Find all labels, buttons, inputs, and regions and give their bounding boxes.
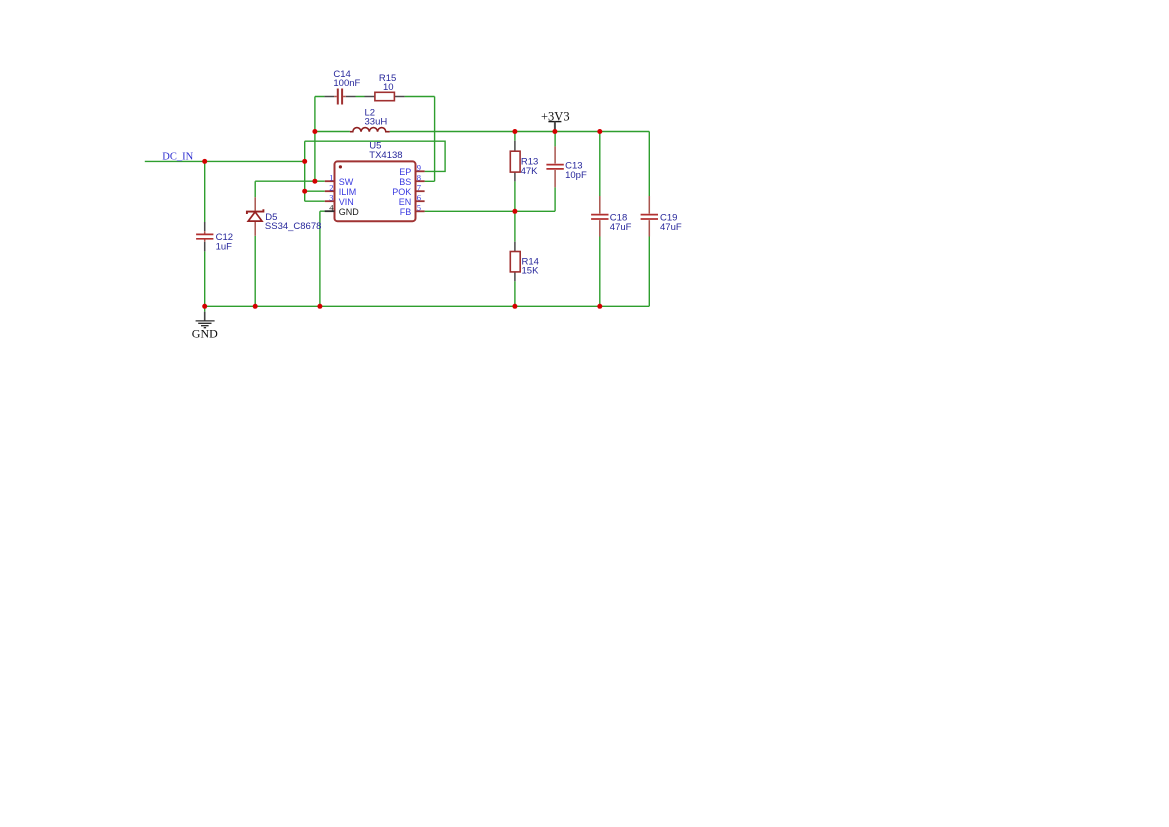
svg-text:15K: 15K	[522, 266, 540, 277]
junction rail / D5	[253, 304, 258, 309]
wire BS vertical	[425, 97, 435, 182]
wire C18 branch	[599, 132, 601, 307]
svg-text:ILIM: ILIM	[339, 187, 357, 197]
resistor R13	[510, 141, 538, 182]
wire ground rail	[205, 305, 650, 307]
capacitor C18	[591, 196, 632, 237]
junction pin2 tap	[302, 189, 307, 194]
ground	[192, 306, 218, 340]
junction SW / L2	[312, 129, 317, 134]
wire pin4 to ground rail	[320, 211, 325, 306]
junction DC_IN / EP riser	[302, 159, 307, 164]
wire SW vertical	[315, 97, 325, 182]
svg-text:10: 10	[383, 82, 394, 93]
svg-text:47K: 47K	[521, 166, 539, 177]
capacitor C13	[546, 146, 587, 187]
svg-text:33uH: 33uH	[365, 117, 388, 128]
pin 1 SW	[325, 172, 354, 187]
pin 2 ILIM	[325, 182, 356, 197]
capacitor C14	[324, 69, 360, 105]
wire C19 branch	[648, 132, 650, 307]
pin 3 VIN	[325, 192, 354, 207]
svg-text:GND: GND	[339, 207, 360, 217]
junction rail / C12 / GND	[202, 304, 207, 309]
svg-text:9: 9	[417, 162, 421, 172]
pin 9 EP	[399, 162, 424, 177]
wire C13 top	[554, 132, 556, 147]
svg-text:SW: SW	[339, 177, 354, 187]
wire C12 top	[204, 161, 206, 222]
svg-text:3: 3	[329, 192, 333, 202]
junction SW / pin1 / D5	[312, 179, 317, 184]
resistor R14	[510, 242, 539, 281]
svg-text:100nF: 100nF	[333, 78, 360, 89]
svg-text:VIN: VIN	[339, 197, 354, 207]
junction 3V3 rail / C18	[597, 129, 602, 134]
svg-text:2: 2	[329, 182, 333, 192]
svg-text:6: 6	[417, 192, 421, 202]
wire L2 line	[315, 131, 649, 133]
svg-text:10pF: 10pF	[565, 170, 587, 181]
svg-text:EN: EN	[399, 197, 412, 207]
junction L2 out / R13	[512, 129, 517, 134]
svg-text:47uF: 47uF	[660, 222, 682, 233]
svg-text:47uF: 47uF	[610, 222, 632, 233]
wire DC_IN horizontal	[145, 160, 305, 162]
svg-text:BS: BS	[399, 177, 411, 187]
svg-text:TX4138: TX4138	[369, 150, 402, 161]
junction rail / C18	[597, 304, 602, 309]
svg-text:1: 1	[329, 172, 333, 182]
wire C12 bottom	[204, 251, 206, 306]
junction rail / R14	[512, 304, 517, 309]
wire R13 R14 segments	[514, 132, 516, 307]
diode D5	[247, 197, 322, 236]
svg-text:EP: EP	[399, 167, 411, 177]
wire top loop segments	[315, 96, 435, 98]
junction FB / R13 / R14	[512, 209, 517, 214]
pin 4 GND	[325, 202, 360, 217]
wire VIN vertical	[305, 141, 325, 201]
junction +3V3 / C13	[552, 129, 557, 134]
svg-text:5: 5	[417, 202, 421, 212]
svg-text:1uF: 1uF	[216, 242, 233, 253]
svg-text:+3V3: +3V3	[541, 110, 570, 124]
svg-text:SS34_C8678: SS34_C8678	[265, 221, 322, 232]
svg-text:POK: POK	[392, 187, 411, 197]
capacitor C12	[196, 222, 233, 253]
resistor R15	[365, 73, 405, 101]
wire D5 anode down	[254, 236, 256, 306]
pin 7 POK	[392, 182, 424, 197]
wire D5 to SW	[255, 181, 315, 197]
wire EP loop	[305, 141, 445, 171]
svg-text:8: 8	[417, 172, 421, 182]
svg-text:FB: FB	[400, 207, 412, 217]
capacitor C19	[641, 196, 682, 237]
pin 8 BS	[399, 172, 424, 187]
junction rail / pin4	[317, 304, 322, 309]
svg-text:7: 7	[417, 182, 421, 192]
wire FB line	[425, 187, 555, 211]
pin 5 FB	[400, 202, 425, 217]
pin 6 EN	[399, 192, 425, 207]
svg-text:GND: GND	[192, 327, 218, 341]
op-amp U5 (IC TX4138)	[335, 141, 416, 222]
inductor L2	[350, 107, 390, 131]
junction DC_IN / C12	[202, 159, 207, 164]
power +3V3	[541, 110, 570, 132]
svg-text:DC_IN: DC_IN	[162, 151, 193, 162]
